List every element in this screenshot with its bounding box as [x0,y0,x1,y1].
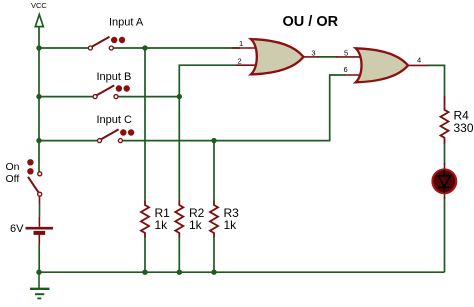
or-gate U1 [251,39,304,74]
svg-text:4: 4 [417,56,421,65]
svg-text:3: 3 [311,48,315,57]
resistor R2 [175,201,183,238]
switch SW-B [93,85,130,98]
svg-text:330: 330 [454,121,474,135]
wire gate2 pin6 branch from input C [330,75,345,141]
junction node on VCC rail at input A [36,45,41,50]
switch SW-A [88,37,125,50]
resistor R3 [210,201,218,238]
junction node R3 bottom [211,270,216,275]
pin 4 stub (gate2 output) [407,64,428,66]
wire R3 branch vertical [213,141,215,273]
switch SW-ONOFF [27,159,42,196]
junction node R1 top [142,45,147,50]
junction node R3 at input C [211,138,216,143]
junction node R2 bottom [177,270,182,275]
wire LED to bottom rail [444,198,446,273]
junction node on VCC rail at input C [36,138,41,143]
pin 1 stub [232,47,258,49]
power VCC [31,1,47,27]
junction node R1 bottom [142,270,147,275]
pin 5 stub [336,56,362,58]
svg-text:Input A: Input A [109,16,144,28]
or-gate U2 [356,48,408,82]
junction node R2 at input B [177,94,182,99]
wire gate2 output to R4 branch [427,65,445,96]
switch SW-C [98,129,135,142]
svg-text:On: On [6,161,20,173]
junction node on VCC rail at input B [36,94,41,99]
wire gate1 output to gate2 pin5 [318,56,338,58]
pin 3 stub (gate1 output) [303,56,319,58]
junction node bottom rail at battery [36,270,41,275]
wire R1 branch vertical [144,48,146,272]
wire input B left segment [39,96,93,98]
wire battery to bottom rail [38,235,40,244]
svg-text:1k: 1k [224,218,238,232]
resistor R4 [441,96,449,144]
svg-text:1: 1 [239,39,243,48]
wire switch to battery [39,196,41,203]
wire VCC rail vertical [38,27,40,172]
wire R4 to LED [444,143,446,165]
pin 2 stub [236,64,257,66]
resistor R1 [141,201,149,238]
pin 6 stub [345,74,363,76]
svg-text:1k: 1k [155,218,169,232]
svg-text:Input B: Input B [97,71,132,83]
wire input A right segment to gate pin 1 [114,47,241,49]
svg-text:OU / OR: OU / OR [283,14,339,30]
svg-text:Input C: Input C [97,114,133,126]
led D1 [432,164,456,199]
svg-text:6V: 6V [10,223,24,235]
wire gate1 pin2 branch from input B [179,65,236,272]
wire input B right segment [118,96,179,98]
battery BT1 6V [26,228,54,233]
wire input C left segment [39,140,97,142]
svg-text:6: 6 [344,65,348,74]
svg-text:Off: Off [6,173,20,185]
wire bottom ground rail [39,271,445,273]
wire input C right segment [123,140,331,142]
svg-text:VCC: VCC [31,1,47,10]
wire input A left segment [39,47,88,49]
svg-text:1k: 1k [189,218,203,232]
ground symbol [30,272,50,298]
svg-text:2: 2 [238,56,242,65]
